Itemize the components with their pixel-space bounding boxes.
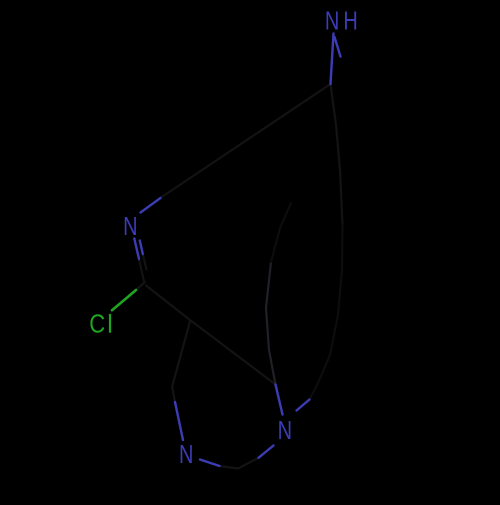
svg-text:N: N bbox=[325, 6, 339, 35]
wire V2 to N3 dark half bbox=[172, 386, 175, 402]
wire NH second stub bbox=[335, 37, 341, 57]
wire NH main bond bbox=[331, 34, 334, 85]
wire N5 up-right stub blue half bbox=[297, 400, 310, 411]
wire right arc chain upper bbox=[331, 84, 343, 225]
wire V1 to V2 bbox=[172, 322, 190, 388]
wire C=N double bond inner dark half bbox=[143, 254, 147, 270]
wire nitrogen-colored bond halves bbox=[134, 34, 340, 467]
wire N3 to V4 dark half bbox=[220, 466, 239, 469]
wire right arc chain lower bbox=[310, 225, 343, 400]
svg-text:C: C bbox=[89, 310, 105, 339]
wire Cl bond dark half bbox=[136, 282, 145, 290]
wire chlorine bond green half bbox=[112, 290, 136, 310]
wire C2 to V1 bbox=[146, 286, 190, 321]
wire N5 up stub blue half bbox=[276, 385, 283, 415]
svg-text:N: N bbox=[278, 416, 292, 445]
wire N3 to V4 blue half bbox=[200, 460, 220, 467]
wire long diagonal C to N (dark half) bbox=[161, 84, 331, 198]
svg-text:N: N bbox=[123, 211, 137, 240]
wire N=C main blue half bbox=[134, 239, 139, 260]
wire N left to upper right stub bbox=[141, 198, 161, 213]
wire V4 to N5 blue half bbox=[259, 446, 274, 458]
wire V4 to N5 dark half bbox=[238, 458, 259, 469]
wire: macrocycle C-C bonds, dark carbon color bbox=[136, 84, 343, 469]
node Cl label bbox=[89, 310, 110, 339]
wire left inner chain faint top bbox=[271, 203, 291, 262]
svg-text:H: H bbox=[343, 6, 357, 35]
wire N=C inner blue half bbox=[140, 241, 143, 255]
wire V2 to N3 blue half bbox=[175, 402, 183, 440]
svg-text:N: N bbox=[179, 440, 193, 469]
wire left inner chain bbox=[266, 262, 276, 385]
wire V1 to V6 bbox=[190, 320, 276, 385]
node NH label bbox=[325, 6, 358, 35]
wire C=N double bond main dark half bbox=[139, 259, 144, 282]
